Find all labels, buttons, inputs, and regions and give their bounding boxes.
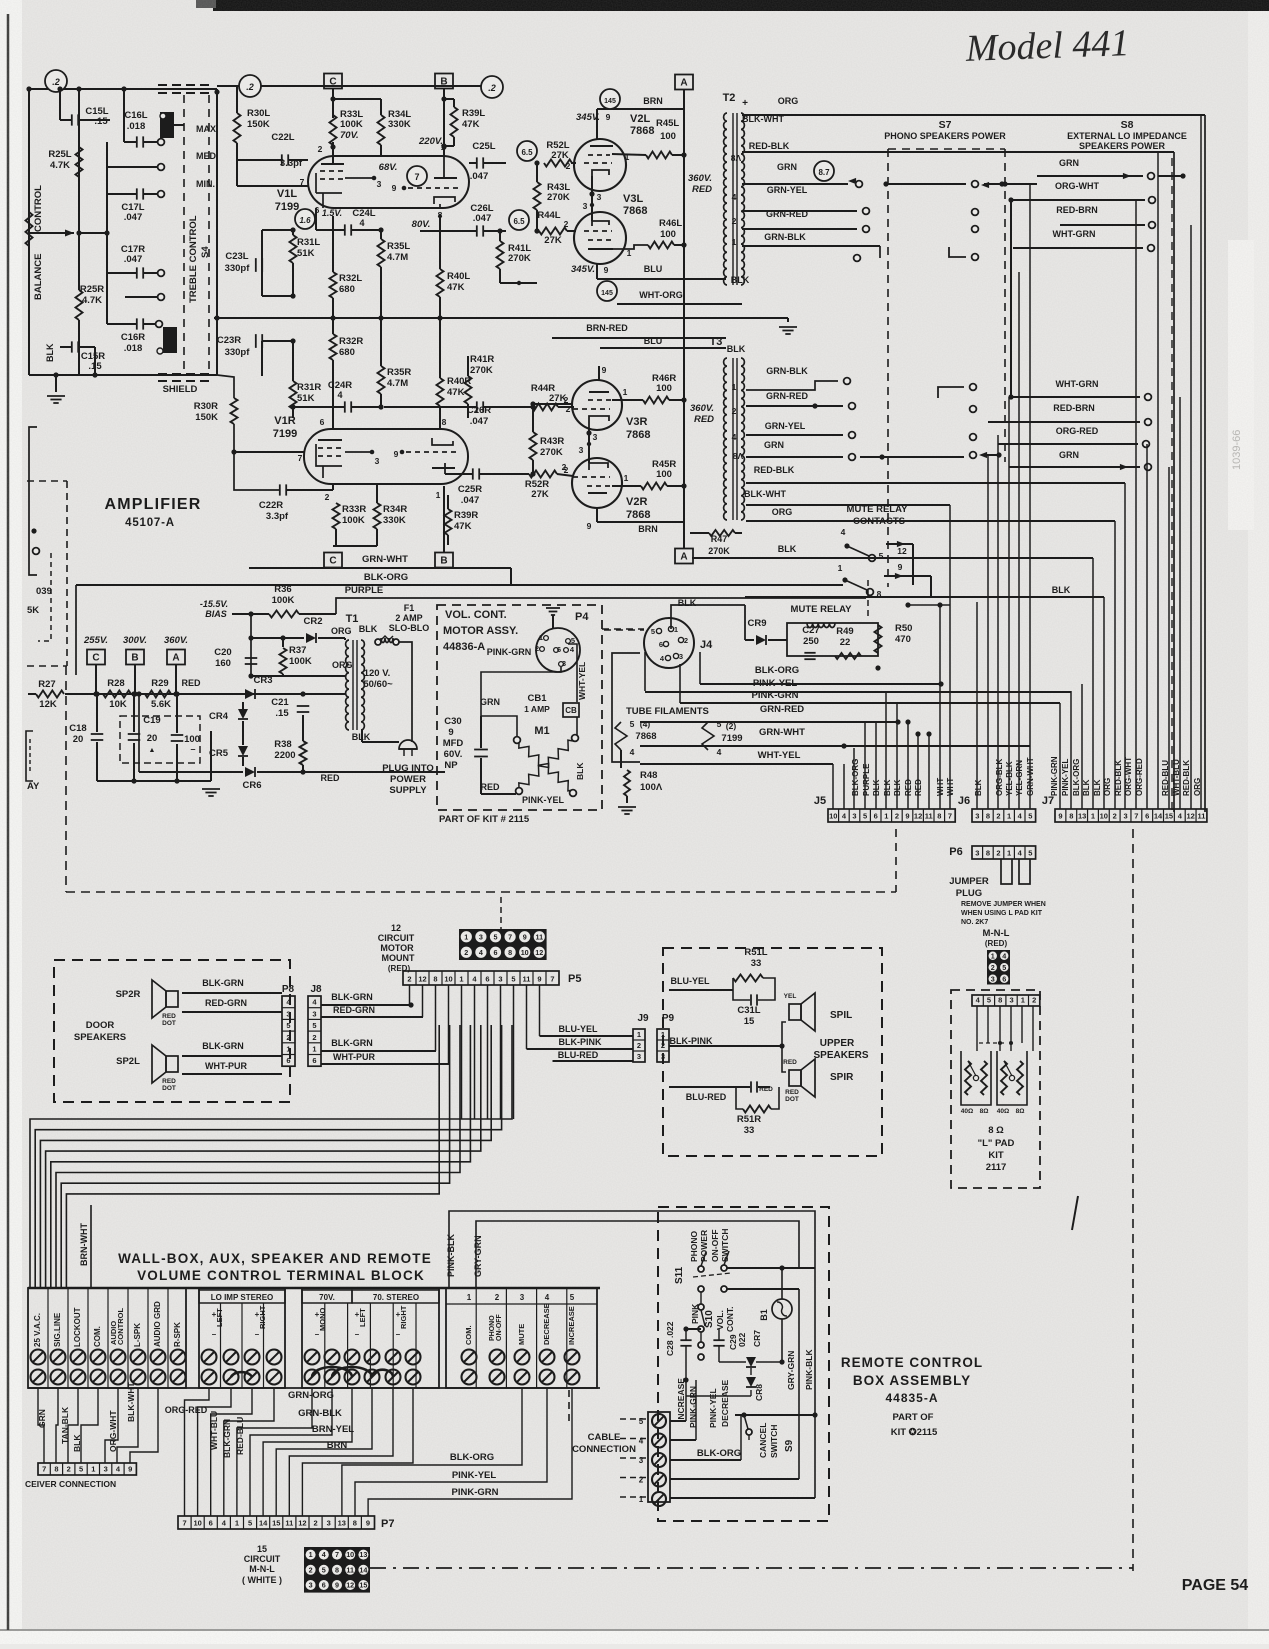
svg-text:RED: RED bbox=[759, 1086, 773, 1093]
svg-text:WHT-YEL: WHT-YEL bbox=[758, 750, 801, 761]
svg-text:BLU-RED: BLU-RED bbox=[686, 1092, 727, 1102]
svg-text:RIGHT: RIGHT bbox=[258, 1305, 267, 1329]
svg-text:360V.: 360V. bbox=[164, 635, 188, 646]
svg-text:BLK-WHT: BLK-WHT bbox=[744, 489, 786, 499]
svg-text:9: 9 bbox=[392, 183, 397, 193]
svg-text:7868: 7868 bbox=[630, 125, 654, 137]
svg-text:DOT: DOT bbox=[162, 1085, 176, 1092]
svg-text:12: 12 bbox=[346, 1581, 354, 1590]
svg-text:J8: J8 bbox=[310, 984, 322, 995]
svg-text:CONTROL: CONTROL bbox=[33, 185, 44, 232]
svg-text:BLU-YEL: BLU-YEL bbox=[559, 1024, 598, 1034]
svg-text:5: 5 bbox=[322, 1565, 326, 1574]
svg-text:13: 13 bbox=[359, 1550, 367, 1559]
svg-text:70V.: 70V. bbox=[319, 1293, 335, 1302]
svg-text:DECREASE: DECREASE bbox=[720, 1379, 730, 1427]
svg-text:12: 12 bbox=[298, 1519, 306, 1528]
svg-text:10: 10 bbox=[521, 948, 529, 957]
svg-text:8: 8 bbox=[877, 589, 882, 599]
svg-text:2: 2 bbox=[67, 1465, 71, 1474]
svg-text:PINK-YEL: PINK-YEL bbox=[452, 1470, 497, 1481]
svg-text:11: 11 bbox=[523, 975, 531, 984]
svg-text:.2: .2 bbox=[488, 83, 496, 93]
svg-text:MONO: MONO bbox=[318, 1308, 327, 1331]
svg-text:7: 7 bbox=[182, 1519, 186, 1528]
svg-text:AUDIO GRD: AUDIO GRD bbox=[153, 1301, 162, 1347]
svg-text:5: 5 bbox=[639, 1417, 644, 1426]
svg-text:P6: P6 bbox=[949, 846, 962, 858]
svg-text:CIRCUIT: CIRCUIT bbox=[378, 933, 415, 943]
svg-text:3: 3 bbox=[498, 975, 502, 984]
svg-text:8Ω: 8Ω bbox=[1016, 1108, 1025, 1115]
svg-text:C30: C30 bbox=[444, 716, 461, 727]
svg-text:ORG: ORG bbox=[778, 96, 799, 106]
svg-text:R35R: R35R bbox=[387, 367, 411, 378]
svg-text:RED: RED bbox=[480, 782, 500, 792]
svg-text:(4): (4) bbox=[640, 719, 651, 729]
svg-text:9: 9 bbox=[898, 562, 903, 572]
svg-text:60V.: 60V. bbox=[444, 749, 463, 760]
svg-text:BLK: BLK bbox=[359, 624, 378, 634]
svg-text:27K: 27K bbox=[551, 150, 569, 161]
svg-text:.2: .2 bbox=[246, 82, 254, 92]
svg-text:039: 039 bbox=[36, 586, 52, 597]
svg-text:BRN: BRN bbox=[643, 96, 663, 106]
svg-text:330pf: 330pf bbox=[225, 347, 251, 358]
svg-text:C31L: C31L bbox=[737, 1005, 760, 1016]
svg-text:AMPLIFIER: AMPLIFIER bbox=[104, 496, 201, 513]
svg-text:12: 12 bbox=[535, 948, 543, 957]
svg-text:20: 20 bbox=[73, 734, 84, 745]
svg-text:BLK-PINK: BLK-PINK bbox=[559, 1037, 602, 1047]
svg-text:8: 8 bbox=[937, 812, 941, 821]
svg-text:10: 10 bbox=[1100, 812, 1108, 821]
svg-text:RED-BRN: RED-BRN bbox=[1056, 205, 1098, 215]
svg-text:BRN: BRN bbox=[638, 524, 658, 534]
svg-text:15: 15 bbox=[1165, 812, 1173, 821]
svg-text:CR7: CR7 bbox=[752, 1330, 762, 1347]
svg-text:COM.: COM. bbox=[464, 1325, 473, 1345]
svg-text:160: 160 bbox=[215, 658, 231, 669]
svg-text:300V.: 300V. bbox=[123, 635, 147, 646]
svg-text:CONTROL: CONTROL bbox=[116, 1308, 125, 1345]
svg-text:R44L: R44L bbox=[537, 210, 560, 221]
svg-text:GRN-YEL: GRN-YEL bbox=[765, 421, 806, 431]
svg-text:R31R: R31R bbox=[297, 382, 321, 393]
svg-text:MOTOR ASSY.: MOTOR ASSY. bbox=[443, 625, 518, 637]
svg-text:6: 6 bbox=[209, 1519, 213, 1528]
svg-text:MED.: MED. bbox=[196, 151, 219, 161]
svg-text:SPEAKERS: SPEAKERS bbox=[813, 1050, 868, 1061]
svg-text:BLK: BLK bbox=[778, 544, 797, 554]
svg-text:9: 9 bbox=[587, 521, 592, 531]
svg-text:2: 2 bbox=[1032, 996, 1036, 1005]
svg-text:27K: 27K bbox=[531, 489, 549, 500]
svg-text:BRN-YEL: BRN-YEL bbox=[312, 1424, 354, 1435]
svg-text:BLK: BLK bbox=[1052, 585, 1071, 595]
svg-text:C22L: C22L bbox=[271, 132, 294, 143]
svg-text:C27: C27 bbox=[802, 625, 819, 636]
svg-text:8Λ: 8Λ bbox=[731, 153, 742, 163]
svg-text:R25R: R25R bbox=[80, 284, 104, 295]
svg-text:1: 1 bbox=[639, 1495, 644, 1504]
svg-text:R45L: R45L bbox=[656, 118, 679, 129]
svg-text:R51L: R51L bbox=[744, 947, 767, 958]
svg-text:INCREASE: INCREASE bbox=[567, 1306, 576, 1345]
svg-text:3: 3 bbox=[1009, 996, 1013, 1005]
svg-text:DOT: DOT bbox=[162, 1020, 176, 1027]
svg-text:C18: C18 bbox=[69, 723, 86, 734]
svg-text:33: 33 bbox=[744, 1125, 755, 1136]
svg-text:R29: R29 bbox=[151, 678, 168, 689]
svg-text:10: 10 bbox=[346, 1550, 354, 1559]
svg-text:R38: R38 bbox=[274, 739, 291, 750]
svg-text:WHT: WHT bbox=[936, 778, 945, 796]
svg-text:3: 3 bbox=[679, 652, 683, 661]
svg-text:A: A bbox=[680, 552, 687, 563]
svg-text:BLU-YEL: BLU-YEL bbox=[671, 976, 710, 986]
svg-text:RIGHT: RIGHT bbox=[399, 1305, 408, 1329]
svg-text:6: 6 bbox=[312, 1056, 316, 1065]
svg-text:RED: RED bbox=[783, 1059, 797, 1066]
svg-text:.018: .018 bbox=[124, 343, 143, 354]
svg-text:LEFT: LEFT bbox=[215, 1308, 224, 1327]
svg-text:PINK-BLK: PINK-BLK bbox=[804, 1349, 814, 1390]
svg-text:PAGE 54: PAGE 54 bbox=[1182, 1577, 1249, 1594]
svg-text:CEIVER CONNECTION: CEIVER CONNECTION bbox=[25, 1479, 116, 1489]
svg-text:13: 13 bbox=[1078, 812, 1086, 821]
svg-text:PURPLE: PURPLE bbox=[862, 763, 871, 796]
svg-text:BLK-ORG: BLK-ORG bbox=[364, 572, 408, 583]
svg-text:4: 4 bbox=[479, 948, 483, 957]
svg-text:1 AMP: 1 AMP bbox=[524, 704, 550, 714]
svg-text:CR4: CR4 bbox=[209, 711, 229, 722]
svg-text:7: 7 bbox=[508, 932, 512, 941]
svg-text:C21: C21 bbox=[271, 697, 289, 708]
svg-text:COM.: COM. bbox=[93, 1326, 102, 1347]
svg-text:CB: CB bbox=[565, 706, 577, 715]
svg-text:PLUG INTO: PLUG INTO bbox=[382, 763, 434, 774]
svg-text:RED-BLK: RED-BLK bbox=[754, 465, 795, 475]
svg-text:270K: 270K bbox=[540, 447, 563, 458]
svg-text:+: + bbox=[742, 98, 748, 109]
svg-text:GRN-YEL: GRN-YEL bbox=[767, 185, 808, 195]
svg-text:100: 100 bbox=[660, 229, 676, 240]
svg-text:5: 5 bbox=[1028, 812, 1032, 821]
svg-text:9: 9 bbox=[523, 932, 527, 941]
svg-text:40Ω: 40Ω bbox=[961, 1108, 973, 1115]
svg-text:145: 145 bbox=[604, 98, 616, 105]
svg-text:C25R: C25R bbox=[458, 484, 482, 495]
svg-text:4: 4 bbox=[545, 1293, 550, 1302]
svg-text:10: 10 bbox=[193, 1519, 201, 1528]
svg-text:7: 7 bbox=[42, 1465, 46, 1474]
svg-text:3: 3 bbox=[637, 1052, 641, 1061]
svg-text:8: 8 bbox=[1069, 812, 1073, 821]
svg-text:100Λ: 100Λ bbox=[640, 782, 663, 793]
svg-text:ORG: ORG bbox=[1103, 778, 1112, 796]
svg-text:330K: 330K bbox=[388, 119, 411, 130]
svg-text:BLK-ORG: BLK-ORG bbox=[851, 759, 860, 796]
svg-text:BLU: BLU bbox=[644, 264, 663, 274]
svg-text:13: 13 bbox=[338, 1519, 346, 1528]
svg-text:P7: P7 bbox=[381, 1518, 394, 1530]
svg-text:2: 2 bbox=[639, 1476, 644, 1485]
svg-text:BLK: BLK bbox=[974, 779, 983, 796]
svg-text:1: 1 bbox=[1007, 849, 1011, 858]
svg-text:R34R: R34R bbox=[383, 504, 407, 515]
svg-text:ORG-BLK: ORG-BLK bbox=[995, 758, 1004, 796]
svg-text:4: 4 bbox=[322, 1550, 326, 1559]
svg-text:5: 5 bbox=[79, 1465, 83, 1474]
svg-text:SHIELD: SHIELD bbox=[163, 384, 198, 395]
svg-text:.047: .047 bbox=[473, 213, 492, 224]
svg-text:9: 9 bbox=[335, 1581, 339, 1590]
svg-text:2: 2 bbox=[325, 492, 330, 502]
svg-text:8: 8 bbox=[998, 996, 1002, 1005]
svg-text:6: 6 bbox=[286, 1056, 290, 1065]
svg-text:SIG.LINE: SIG.LINE bbox=[53, 1312, 62, 1347]
svg-text:RED-BLK: RED-BLK bbox=[749, 141, 790, 151]
svg-text:5: 5 bbox=[1002, 963, 1006, 972]
svg-text:100K: 100K bbox=[289, 656, 312, 667]
svg-text:R39R: R39R bbox=[454, 510, 478, 521]
svg-text:R40L: R40L bbox=[447, 271, 470, 282]
svg-text:WHT-YEL: WHT-YEL bbox=[577, 662, 587, 700]
svg-text:MFD: MFD bbox=[443, 738, 464, 749]
svg-text:1: 1 bbox=[467, 1293, 472, 1302]
svg-text:.047: .047 bbox=[124, 254, 143, 265]
svg-text:3: 3 bbox=[327, 1519, 331, 1528]
svg-text:680: 680 bbox=[339, 284, 355, 295]
svg-text:1: 1 bbox=[1021, 996, 1025, 1005]
svg-text:POWER: POWER bbox=[390, 774, 426, 785]
svg-text:ORG-WHT: ORG-WHT bbox=[108, 1410, 118, 1452]
svg-text:10K: 10K bbox=[109, 699, 127, 710]
svg-text:6: 6 bbox=[322, 1581, 326, 1590]
svg-text:8Λ: 8Λ bbox=[733, 451, 744, 461]
svg-text:5.6K: 5.6K bbox=[151, 699, 171, 710]
svg-text:2: 2 bbox=[991, 963, 995, 972]
svg-text:470: 470 bbox=[895, 634, 911, 645]
svg-text:25 V.A.C.: 25 V.A.C. bbox=[33, 1313, 42, 1347]
svg-text:1: 1 bbox=[732, 382, 737, 392]
svg-text:GRN: GRN bbox=[1059, 450, 1079, 460]
svg-text:7199: 7199 bbox=[721, 733, 742, 744]
svg-text:27K: 27K bbox=[544, 235, 562, 246]
svg-text:GRN-WHT: GRN-WHT bbox=[759, 727, 805, 738]
svg-text:B: B bbox=[440, 556, 447, 567]
svg-text:S11: S11 bbox=[674, 1266, 685, 1284]
svg-text:6: 6 bbox=[659, 640, 663, 649]
svg-text:2: 2 bbox=[464, 948, 468, 957]
svg-text:R35L: R35L bbox=[387, 241, 410, 252]
svg-text:022: 022 bbox=[737, 1333, 747, 1347]
svg-text:145: 145 bbox=[601, 290, 613, 297]
svg-text:14: 14 bbox=[259, 1519, 268, 1528]
svg-text:8: 8 bbox=[508, 948, 512, 957]
svg-text:CR9: CR9 bbox=[747, 618, 766, 629]
svg-text:2: 2 bbox=[996, 812, 1000, 821]
svg-text:.047: .047 bbox=[124, 212, 143, 223]
svg-text:9: 9 bbox=[1058, 812, 1062, 821]
svg-text:ON-OFF: ON-OFF bbox=[496, 1313, 503, 1341]
svg-text:GRN-RED: GRN-RED bbox=[766, 391, 808, 401]
svg-text:S10: S10 bbox=[704, 1310, 715, 1328]
svg-text:RED-GRN: RED-GRN bbox=[333, 1005, 375, 1015]
svg-text:9: 9 bbox=[394, 449, 399, 459]
svg-text:BLK-GRN: BLK-GRN bbox=[331, 992, 373, 1002]
svg-text:PART OF: PART OF bbox=[893, 1412, 934, 1423]
svg-text:R31L: R31L bbox=[297, 237, 320, 248]
svg-text:T2: T2 bbox=[723, 92, 736, 104]
svg-text:V1L: V1L bbox=[277, 188, 297, 200]
svg-text:80V.: 80V. bbox=[412, 219, 431, 230]
svg-text:2: 2 bbox=[535, 644, 539, 653]
svg-text:SPEAKERS: SPEAKERS bbox=[74, 1032, 126, 1043]
svg-text:WHT-PUR: WHT-PUR bbox=[333, 1052, 375, 1062]
svg-text:GRN-WHT: GRN-WHT bbox=[362, 554, 408, 565]
svg-text:RED-BLK: RED-BLK bbox=[1182, 760, 1191, 796]
svg-text:F1: F1 bbox=[404, 603, 415, 613]
svg-text:S8: S8 bbox=[1121, 119, 1134, 131]
svg-text:2: 2 bbox=[564, 465, 569, 475]
svg-text:GRN-WHT: GRN-WHT bbox=[1026, 757, 1035, 796]
svg-text:CABLE: CABLE bbox=[588, 1432, 621, 1443]
svg-text:12: 12 bbox=[914, 812, 922, 821]
svg-text:9: 9 bbox=[448, 727, 453, 738]
svg-text:VOL. CONT.: VOL. CONT. bbox=[445, 609, 507, 621]
svg-text:CR2: CR2 bbox=[303, 616, 322, 627]
svg-text:ORG-WHT: ORG-WHT bbox=[1124, 757, 1133, 796]
svg-text:1: 1 bbox=[1091, 812, 1095, 821]
svg-text:2: 2 bbox=[318, 144, 323, 154]
svg-text:P4: P4 bbox=[575, 611, 589, 623]
svg-text:2: 2 bbox=[637, 1041, 641, 1050]
svg-text:PART OF KIT # 2115: PART OF KIT # 2115 bbox=[439, 814, 530, 825]
svg-text:10: 10 bbox=[829, 812, 837, 821]
svg-text:8: 8 bbox=[433, 975, 437, 984]
svg-text:6: 6 bbox=[494, 948, 498, 957]
svg-text:R51R: R51R bbox=[737, 1114, 761, 1125]
svg-text:B: B bbox=[440, 77, 447, 88]
svg-text:WHT-GRN: WHT-GRN bbox=[1056, 379, 1099, 389]
svg-text:BLK: BLK bbox=[872, 779, 881, 796]
svg-text:100: 100 bbox=[656, 383, 672, 394]
svg-text:3: 3 bbox=[375, 456, 380, 466]
svg-text:–: – bbox=[255, 1330, 260, 1339]
svg-text:2: 2 bbox=[312, 1033, 316, 1042]
svg-text:.047: .047 bbox=[461, 495, 480, 506]
svg-text:B1: B1 bbox=[759, 1309, 769, 1321]
svg-text:4: 4 bbox=[841, 527, 846, 537]
svg-text:8: 8 bbox=[986, 812, 990, 821]
svg-text:100: 100 bbox=[660, 131, 676, 142]
svg-text:3: 3 bbox=[309, 1581, 313, 1590]
svg-text:WHT-BLU: WHT-BLU bbox=[1172, 759, 1181, 796]
svg-text:3: 3 bbox=[991, 974, 995, 983]
svg-text:PINK-GRN: PINK-GRN bbox=[487, 647, 532, 657]
svg-text:1: 1 bbox=[623, 387, 628, 397]
svg-text:8Ω: 8Ω bbox=[980, 1108, 989, 1115]
svg-text:R41R: R41R bbox=[470, 354, 494, 365]
svg-text:1: 1 bbox=[732, 237, 737, 247]
svg-text:100K: 100K bbox=[272, 595, 295, 606]
svg-text:1: 1 bbox=[235, 1519, 239, 1528]
svg-text:J5: J5 bbox=[814, 795, 826, 807]
svg-text:10: 10 bbox=[444, 975, 452, 984]
svg-text:6: 6 bbox=[1145, 812, 1149, 821]
svg-text:–: – bbox=[315, 1330, 320, 1339]
svg-text:9: 9 bbox=[366, 1519, 370, 1528]
svg-text:JUMPER: JUMPER bbox=[949, 876, 989, 887]
svg-text:M-N-L: M-N-L bbox=[983, 928, 1010, 939]
svg-text:11: 11 bbox=[925, 812, 933, 821]
svg-text:PINK-YEL: PINK-YEL bbox=[753, 678, 798, 689]
svg-text:BLK: BLK bbox=[575, 762, 585, 780]
svg-text:R46L: R46L bbox=[659, 218, 682, 229]
svg-text:PINK-YEL: PINK-YEL bbox=[708, 1388, 718, 1428]
svg-text:SP2L: SP2L bbox=[116, 1056, 140, 1067]
svg-text:ORG: ORG bbox=[332, 660, 353, 670]
svg-text:2: 2 bbox=[313, 1519, 317, 1528]
svg-text:12: 12 bbox=[897, 546, 907, 556]
svg-text:MUTE RELAY: MUTE RELAY bbox=[847, 504, 909, 515]
svg-text:S7: S7 bbox=[939, 119, 952, 131]
svg-text:100: 100 bbox=[656, 469, 672, 480]
svg-text:SPEAKERS POWER: SPEAKERS POWER bbox=[1079, 141, 1166, 151]
svg-text:( WHITE ): ( WHITE ) bbox=[242, 1575, 282, 1585]
svg-text:ORG-RED: ORG-RED bbox=[1135, 758, 1144, 796]
svg-text:8.7: 8.7 bbox=[818, 168, 830, 177]
svg-text:PHONO: PHONO bbox=[689, 1230, 699, 1262]
svg-text:4: 4 bbox=[732, 432, 737, 442]
svg-text:V3R: V3R bbox=[626, 416, 647, 428]
svg-text:V2R: V2R bbox=[626, 496, 647, 508]
svg-text:11: 11 bbox=[285, 1519, 293, 1528]
svg-text:7199: 7199 bbox=[273, 428, 297, 440]
svg-text:3: 3 bbox=[520, 1293, 525, 1302]
svg-text:270K: 270K bbox=[470, 365, 493, 376]
svg-text:8 Ω: 8 Ω bbox=[988, 1125, 1004, 1136]
svg-text:ON-OFF: ON-OFF bbox=[710, 1229, 720, 1262]
svg-text:PHONO SPEAKERS POWER: PHONO SPEAKERS POWER bbox=[884, 131, 1006, 141]
svg-text:CONNECTION: CONNECTION bbox=[572, 1444, 636, 1455]
svg-text:ORG: ORG bbox=[1193, 778, 1202, 796]
svg-text:6: 6 bbox=[320, 417, 325, 427]
svg-text:R30L: R30L bbox=[247, 108, 270, 119]
svg-text:KIT: KIT bbox=[988, 1150, 1004, 1161]
svg-text:.018: .018 bbox=[127, 121, 146, 132]
svg-text:GRN-BLK: GRN-BLK bbox=[298, 1408, 342, 1419]
svg-text:1: 1 bbox=[627, 248, 632, 258]
svg-text:BLK-ORG: BLK-ORG bbox=[697, 1448, 741, 1459]
svg-text:V3L: V3L bbox=[623, 193, 643, 205]
svg-text:MOTOR: MOTOR bbox=[380, 943, 414, 953]
svg-text:3: 3 bbox=[312, 1009, 316, 1018]
svg-text:9: 9 bbox=[128, 1465, 132, 1474]
svg-text:6.5: 6.5 bbox=[513, 217, 525, 226]
svg-text:R25L: R25L bbox=[48, 149, 71, 160]
svg-text:3: 3 bbox=[104, 1465, 108, 1474]
svg-text:GRN-RED: GRN-RED bbox=[766, 209, 808, 219]
svg-text:BLK: BLK bbox=[1082, 779, 1091, 796]
svg-text:GRY-GRN: GRY-GRN bbox=[473, 1235, 483, 1277]
svg-text:R36: R36 bbox=[274, 584, 291, 595]
svg-text:12: 12 bbox=[391, 923, 401, 933]
svg-text:CONTACTS: CONTACTS bbox=[853, 516, 905, 527]
svg-text:PURPLE: PURPLE bbox=[345, 585, 384, 596]
